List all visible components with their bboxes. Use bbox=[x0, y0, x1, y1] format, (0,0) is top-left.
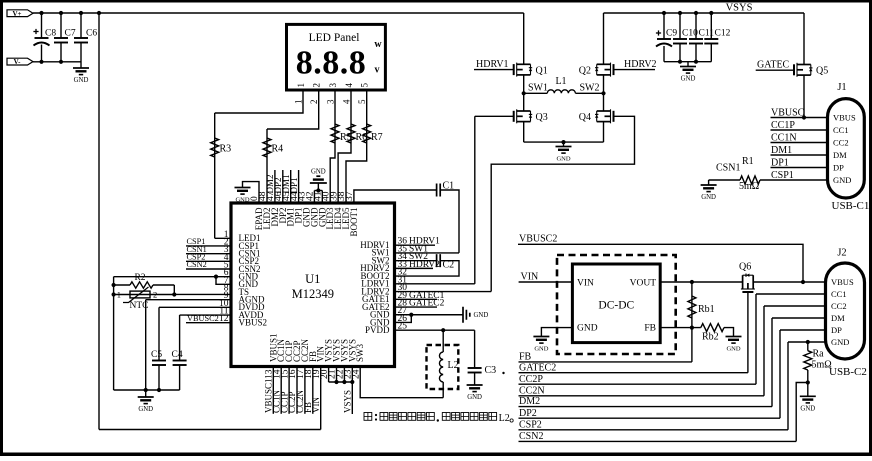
svg-text:GND: GND bbox=[556, 156, 570, 163]
svg-text:GND: GND bbox=[833, 175, 851, 185]
svg-text:DM: DM bbox=[833, 150, 847, 160]
svg-text:Q2: Q2 bbox=[579, 65, 591, 76]
svg-text:J2: J2 bbox=[837, 248, 846, 259]
svg-text:R1: R1 bbox=[742, 156, 754, 167]
svg-text:Rb2: Rb2 bbox=[702, 332, 719, 343]
svg-text:C3: C3 bbox=[485, 365, 497, 376]
svg-text:GND: GND bbox=[726, 346, 740, 353]
svg-text:R2: R2 bbox=[134, 273, 145, 283]
svg-text:GND: GND bbox=[701, 194, 716, 201]
svg-text:w: w bbox=[374, 39, 382, 50]
svg-text:J1: J1 bbox=[837, 82, 846, 93]
svg-text:SW3: SW3 bbox=[355, 344, 365, 363]
svg-text:DC-DC: DC-DC bbox=[598, 300, 634, 312]
svg-text:L2: L2 bbox=[499, 413, 510, 424]
svg-text:VIN: VIN bbox=[521, 271, 539, 282]
svg-text:Q5: Q5 bbox=[816, 65, 828, 76]
svg-text:CSN2: CSN2 bbox=[187, 260, 207, 269]
svg-text:M12349: M12349 bbox=[292, 287, 334, 301]
svg-text:VOUT: VOUT bbox=[630, 279, 657, 289]
svg-text:C1: C1 bbox=[443, 181, 455, 192]
svg-text:DP1: DP1 bbox=[289, 177, 299, 193]
svg-text:C4: C4 bbox=[172, 350, 183, 360]
svg-text:VSYS: VSYS bbox=[343, 390, 353, 413]
svg-text:VIN: VIN bbox=[577, 279, 594, 289]
svg-text:VBUS2: VBUS2 bbox=[239, 317, 268, 327]
svg-text:GATEC: GATEC bbox=[757, 60, 790, 71]
svg-text:GND: GND bbox=[138, 406, 153, 413]
svg-text:v: v bbox=[375, 65, 380, 76]
svg-text:CC1: CC1 bbox=[833, 125, 849, 135]
svg-text:CC2N: CC2N bbox=[519, 385, 545, 396]
svg-text:Rb1: Rb1 bbox=[698, 304, 715, 315]
svg-text:C9: C9 bbox=[666, 29, 677, 39]
svg-text:CSN2: CSN2 bbox=[519, 431, 543, 442]
svg-text:DM1: DM1 bbox=[771, 145, 792, 156]
svg-text:U1: U1 bbox=[305, 272, 320, 286]
svg-text:GND: GND bbox=[831, 337, 849, 347]
svg-text:GND: GND bbox=[681, 76, 696, 83]
svg-text:VBUSC: VBUSC bbox=[771, 107, 805, 118]
svg-text:VBUSC2: VBUSC2 bbox=[519, 234, 557, 245]
svg-text:C11: C11 bbox=[699, 29, 715, 39]
svg-text:SW1: SW1 bbox=[528, 82, 548, 93]
svg-text:R4: R4 bbox=[272, 144, 284, 155]
svg-text:R5: R5 bbox=[340, 132, 352, 143]
svg-text:FB: FB bbox=[644, 324, 656, 334]
svg-text:Q6: Q6 bbox=[739, 262, 751, 273]
svg-text:2: 2 bbox=[309, 100, 319, 105]
svg-text:2: 2 bbox=[153, 290, 157, 300]
svg-text:V+: V+ bbox=[12, 10, 21, 18]
svg-text:CC2: CC2 bbox=[831, 301, 847, 311]
svg-text:8.8.8: 8.8.8 bbox=[296, 45, 367, 82]
svg-text:GND: GND bbox=[534, 346, 548, 353]
svg-text:L2: L2 bbox=[448, 360, 459, 371]
svg-text:CC2P: CC2P bbox=[519, 374, 543, 385]
svg-text:DM: DM bbox=[831, 313, 845, 323]
svg-text:C6: C6 bbox=[86, 29, 97, 39]
svg-text:CC1N: CC1N bbox=[771, 132, 797, 143]
svg-text:CSP2: CSP2 bbox=[519, 419, 542, 430]
svg-text:DP1: DP1 bbox=[771, 157, 789, 168]
svg-text:5mΩ: 5mΩ bbox=[739, 181, 759, 192]
svg-text:HDRV1: HDRV1 bbox=[476, 59, 509, 70]
svg-text:2: 2 bbox=[312, 83, 322, 88]
svg-text:L1: L1 bbox=[555, 76, 566, 87]
svg-text:4: 4 bbox=[344, 83, 354, 88]
svg-text:GND: GND bbox=[311, 169, 326, 176]
svg-text:VSYS: VSYS bbox=[726, 3, 753, 14]
svg-text:Q4: Q4 bbox=[579, 112, 591, 123]
svg-text:DP2: DP2 bbox=[519, 408, 537, 419]
svg-text:VBUS: VBUS bbox=[833, 112, 856, 122]
svg-text:R3: R3 bbox=[220, 144, 232, 155]
svg-text:FB: FB bbox=[519, 352, 532, 363]
svg-text:CSN1: CSN1 bbox=[716, 163, 740, 174]
svg-text:GND: GND bbox=[577, 324, 598, 334]
svg-text:5: 5 bbox=[357, 99, 367, 104]
svg-text:LED Panel: LED Panel bbox=[309, 32, 360, 44]
svg-text:GND: GND bbox=[800, 406, 815, 413]
svg-text:CC1: CC1 bbox=[831, 289, 847, 299]
svg-text:VIN: VIN bbox=[311, 397, 321, 413]
svg-text:DP: DP bbox=[833, 162, 844, 172]
svg-text:CSP1: CSP1 bbox=[771, 170, 794, 181]
svg-text:1: 1 bbox=[117, 290, 121, 300]
svg-text:C2: C2 bbox=[443, 260, 455, 271]
svg-text:3: 3 bbox=[326, 99, 336, 104]
svg-text:C12: C12 bbox=[715, 29, 731, 39]
svg-text:HDRV2: HDRV2 bbox=[624, 59, 657, 70]
svg-text:VBUS: VBUS bbox=[831, 277, 854, 287]
svg-text:GND: GND bbox=[235, 197, 249, 204]
svg-text:Q3: Q3 bbox=[536, 112, 548, 123]
svg-text:GATEC2: GATEC2 bbox=[519, 362, 556, 373]
svg-text:SW2: SW2 bbox=[580, 82, 600, 93]
svg-text:Ra: Ra bbox=[813, 349, 825, 360]
svg-text:C8: C8 bbox=[45, 29, 56, 39]
svg-text:GND: GND bbox=[74, 77, 89, 84]
svg-text:USB-C1: USB-C1 bbox=[832, 200, 870, 212]
svg-text:BOOT1: BOOT1 bbox=[349, 208, 359, 237]
svg-text:V-: V- bbox=[14, 58, 22, 66]
svg-text:CC1P: CC1P bbox=[771, 120, 795, 131]
svg-text:C5: C5 bbox=[151, 350, 162, 360]
svg-text:PVDD: PVDD bbox=[365, 325, 390, 335]
svg-text:4: 4 bbox=[342, 99, 352, 104]
svg-text:C10: C10 bbox=[682, 29, 698, 39]
svg-text:1: 1 bbox=[294, 100, 304, 105]
svg-text:5: 5 bbox=[360, 83, 370, 88]
svg-text:R6: R6 bbox=[356, 132, 368, 143]
svg-text:DM2: DM2 bbox=[519, 396, 540, 407]
svg-text:R7: R7 bbox=[371, 132, 383, 143]
svg-text:Q1: Q1 bbox=[536, 65, 548, 76]
svg-text:GND: GND bbox=[474, 312, 489, 319]
svg-text:1: 1 bbox=[296, 83, 306, 88]
svg-text:USB-C2: USB-C2 bbox=[829, 366, 867, 378]
svg-text:VBUSC2: VBUSC2 bbox=[187, 314, 219, 323]
svg-text:CC2: CC2 bbox=[833, 137, 849, 147]
svg-text:GND: GND bbox=[467, 394, 482, 401]
svg-text:C7: C7 bbox=[65, 29, 76, 39]
svg-text:DP: DP bbox=[831, 325, 842, 335]
svg-text:3: 3 bbox=[328, 83, 338, 88]
